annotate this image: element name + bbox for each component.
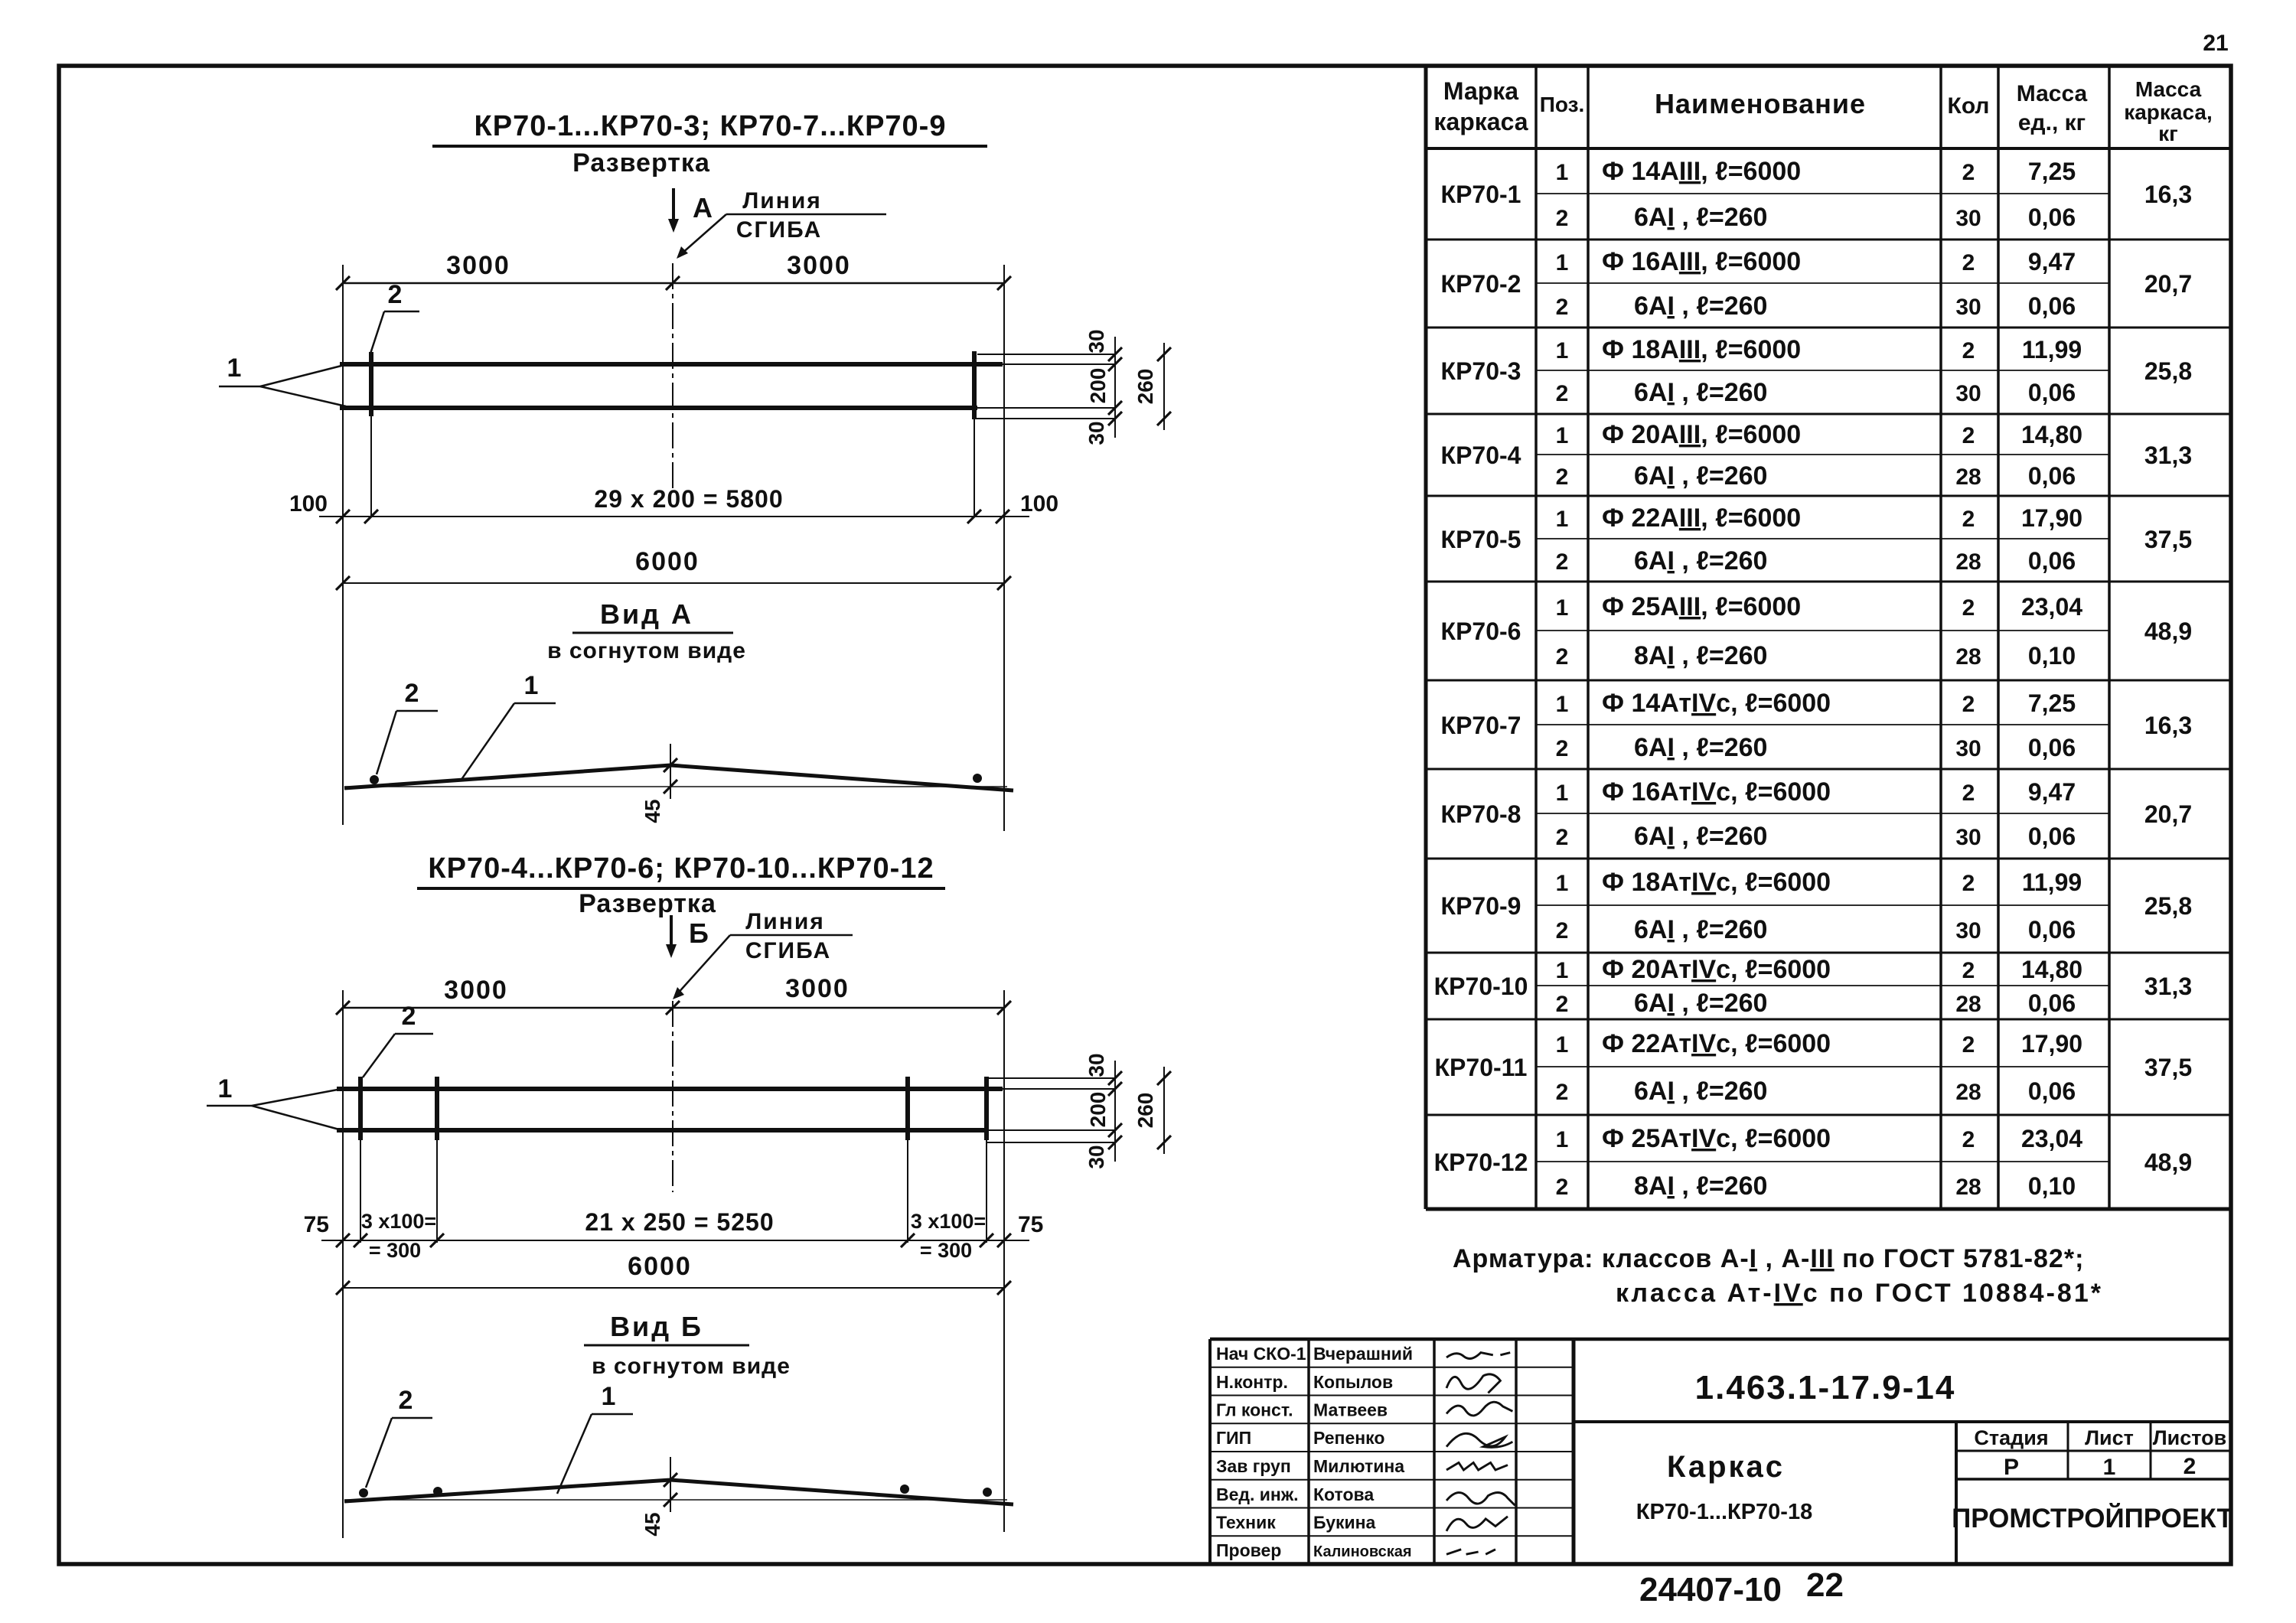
svg-text:0,06: 0,06 bbox=[2028, 823, 2076, 850]
signature squiggle 7 bbox=[1446, 1517, 1508, 1531]
svg-text:20,7: 20,7 bbox=[2144, 800, 2192, 828]
svg-text:Ф 14АIII, ℓ=6000: Ф 14АIII, ℓ=6000 bbox=[1602, 157, 1801, 186]
longitudinal rebar top d2 bbox=[337, 1087, 1003, 1091]
extension line right d1 bbox=[1003, 265, 1005, 831]
svg-text:1.463.1-17.9-14: 1.463.1-17.9-14 bbox=[1695, 1369, 1956, 1406]
svg-text:3 x100=: 3 x100= bbox=[361, 1210, 436, 1233]
label 1 leader VidB bbox=[557, 1382, 633, 1494]
svg-text:Ф 18АIII, ℓ=6000: Ф 18АIII, ℓ=6000 bbox=[1602, 335, 1801, 364]
signature squiggle 1 bbox=[1446, 1353, 1510, 1359]
dimension 75/3x100/21x250/3x100/75 d2 bbox=[304, 1208, 1044, 1262]
svg-text:СГИБА: СГИБА bbox=[736, 217, 822, 243]
svg-text:75: 75 bbox=[304, 1212, 329, 1237]
svg-text:30: 30 bbox=[1955, 918, 1981, 943]
section arrow B bbox=[666, 915, 709, 958]
svg-text:каркаса,: каркаса, bbox=[2124, 100, 2213, 124]
svg-text:Техник: Техник bbox=[1216, 1513, 1276, 1533]
svg-text:6АI , ℓ=260: 6АI , ℓ=260 bbox=[1634, 546, 1767, 575]
leader note Liniya sgiba 2 bbox=[673, 909, 853, 999]
svg-text:Ф 22АтIVс, ℓ=6000: Ф 22АтIVс, ℓ=6000 bbox=[1602, 1029, 1831, 1058]
svg-text:Развертка: Развертка bbox=[579, 889, 716, 918]
svg-text:30: 30 bbox=[1084, 421, 1108, 445]
svg-text:2: 2 bbox=[1556, 644, 1569, 670]
svg-text:3000: 3000 bbox=[785, 974, 850, 1003]
svg-text:Букина: Букина bbox=[1313, 1513, 1376, 1533]
svg-text:2: 2 bbox=[1556, 381, 1569, 406]
svg-text:2: 2 bbox=[399, 1386, 413, 1415]
svg-text:31,3: 31,3 bbox=[2144, 442, 2192, 469]
svg-text:Ф 25АIII, ℓ=6000: Ф 25АIII, ℓ=6000 bbox=[1602, 592, 1801, 621]
svg-text:1: 1 bbox=[227, 354, 242, 383]
svg-text:6АI , ℓ=260: 6АI , ℓ=260 bbox=[1634, 733, 1767, 762]
extension line left d2 bbox=[342, 990, 344, 1538]
svg-text:Каркас: Каркас bbox=[1667, 1450, 1785, 1484]
svg-text:КР70-11: КР70-11 bbox=[1435, 1054, 1528, 1081]
svg-text:Масса: Масса bbox=[2017, 81, 2088, 106]
document number box bbox=[1574, 1369, 2231, 1422]
svg-text:Р: Р bbox=[2004, 1455, 2019, 1480]
svg-text:14,80: 14,80 bbox=[2021, 421, 2082, 448]
dimension line 3000+3000 d1 bbox=[336, 251, 1011, 290]
svg-text:Ф 16АтIVс, ℓ=6000: Ф 16АтIVс, ℓ=6000 bbox=[1602, 777, 1831, 807]
table header labels bbox=[1433, 77, 2212, 145]
svg-text:Репенко: Репенко bbox=[1313, 1428, 1384, 1448]
svg-text:КР70-1: КР70-1 bbox=[1441, 181, 1521, 208]
svg-text:СГИБА: СГИБА bbox=[745, 938, 831, 963]
svg-text:0,06: 0,06 bbox=[2028, 547, 2076, 575]
svg-text:Наименование: Наименование bbox=[1655, 88, 1866, 119]
svg-text:Арматура: классов А-I , А-II: Арматура: классов А-I , А-III по ГОСТ 57… bbox=[1453, 1244, 2084, 1273]
svg-text:2: 2 bbox=[1962, 1127, 1975, 1152]
svg-text:6АI , ℓ=260: 6АI , ℓ=260 bbox=[1634, 203, 1767, 232]
cross bar 4 d2 bbox=[984, 1077, 989, 1243]
signature squiggle 8 bbox=[1446, 1550, 1495, 1554]
svg-text:Кол: Кол bbox=[1948, 93, 1990, 119]
table row КР70-4 bbox=[1441, 420, 2193, 490]
vertical dim 260 d2 bbox=[1133, 1067, 1171, 1154]
svg-text:0,06: 0,06 bbox=[2028, 989, 2076, 1017]
svg-text:48,9: 48,9 bbox=[2144, 1149, 2192, 1176]
svg-text:1: 1 bbox=[602, 1382, 616, 1411]
svg-text:260: 260 bbox=[1133, 369, 1157, 405]
svg-text:0,06: 0,06 bbox=[2028, 204, 2076, 231]
svg-text:31,3: 31,3 bbox=[2144, 973, 2192, 1000]
table row КР70-5 bbox=[1441, 504, 2193, 575]
svg-text:29 x 200 = 5800: 29 x 200 = 5800 bbox=[594, 485, 783, 513]
svg-text:1: 1 bbox=[1556, 781, 1569, 806]
weld dots VidB bbox=[359, 1484, 992, 1498]
extension line right d2 bbox=[1003, 990, 1005, 1532]
svg-text:2: 2 bbox=[402, 1002, 416, 1031]
label 1 leader VidA bbox=[461, 671, 556, 781]
dimension 29x200=5800 d1 bbox=[289, 485, 1058, 523]
subtitle Razvertka 1 bbox=[572, 148, 710, 178]
dimension line 3000+3000 d2 bbox=[336, 974, 1011, 1015]
svg-text:2: 2 bbox=[1962, 250, 1975, 275]
vertical dim 260 d1 bbox=[1133, 343, 1171, 430]
table row КР70-9 bbox=[1441, 868, 2193, 944]
svg-text:КР70-8: КР70-8 bbox=[1441, 800, 1521, 828]
svg-text:21: 21 bbox=[2203, 31, 2228, 56]
svg-text:Поз.: Поз. bbox=[1540, 93, 1585, 116]
stadia list listov header bbox=[1956, 1422, 2231, 1479]
svg-text:Провер: Провер bbox=[1216, 1540, 1281, 1560]
section arrow A bbox=[668, 188, 713, 233]
svg-text:16,3: 16,3 bbox=[2144, 181, 2192, 208]
svg-text:9,47: 9,47 bbox=[2028, 248, 2076, 275]
svg-text:28: 28 bbox=[1955, 464, 1981, 490]
svg-text:Развертка: Развертка bbox=[572, 148, 710, 178]
unfolded edge strip right d1 bbox=[974, 354, 1115, 419]
svg-text:9,47: 9,47 bbox=[2028, 778, 2076, 806]
svg-text:3000: 3000 bbox=[446, 251, 510, 280]
table row КР70-12 bbox=[1434, 1124, 2193, 1201]
svg-text:Матвеев: Матвеев bbox=[1313, 1400, 1388, 1420]
svg-text:0,10: 0,10 bbox=[2028, 1172, 2076, 1200]
table row КР70-7 bbox=[1441, 689, 2193, 762]
cross bar right d1 bbox=[972, 351, 977, 517]
page number 21 bbox=[2203, 31, 2228, 56]
svg-text:= 300: = 300 bbox=[920, 1239, 972, 1262]
svg-text:Калиновская: Калиновская bbox=[1313, 1543, 1412, 1560]
svg-text:0,06: 0,06 bbox=[2028, 379, 2076, 406]
table row КР70-10 bbox=[1434, 955, 2193, 1018]
svg-text:в согнутом виде: в согнутом виде bbox=[547, 638, 746, 663]
svg-text:260: 260 bbox=[1133, 1093, 1157, 1129]
view title Vid B bbox=[584, 1311, 749, 1345]
svg-text:Масса: Масса bbox=[2135, 77, 2202, 101]
svg-text:14,80: 14,80 bbox=[2021, 956, 2082, 983]
svg-text:2: 2 bbox=[1556, 464, 1569, 490]
svg-text:45: 45 bbox=[641, 1512, 664, 1536]
svg-text:16,3: 16,3 bbox=[2144, 712, 2192, 739]
svg-text:1: 1 bbox=[1556, 595, 1569, 621]
svg-text:= 300: = 300 bbox=[369, 1239, 421, 1262]
svg-text:Вид Б: Вид Б bbox=[610, 1311, 703, 1342]
dimension 6000 d1 bbox=[336, 547, 1011, 590]
table row КР70-6 bbox=[1441, 592, 2193, 670]
svg-text:Листов: Листов bbox=[2153, 1426, 2227, 1449]
svg-text:2: 2 bbox=[1556, 206, 1569, 231]
svg-text:3 x100=: 3 x100= bbox=[911, 1210, 986, 1233]
svg-text:1: 1 bbox=[1556, 423, 1569, 448]
bent bar VidA bbox=[344, 765, 1013, 790]
leader note Liniya sgiba 1 bbox=[677, 188, 886, 259]
svg-text:6АI , ℓ=260: 6АI , ℓ=260 bbox=[1634, 461, 1767, 490]
title block top line bbox=[1210, 1338, 2231, 1341]
svg-text:200: 200 bbox=[1086, 1092, 1110, 1128]
svg-text:3000: 3000 bbox=[787, 251, 851, 280]
svg-text:Ф 20АIII, ℓ=6000: Ф 20АIII, ℓ=6000 bbox=[1602, 420, 1801, 449]
svg-text:Стадия: Стадия bbox=[1974, 1426, 2048, 1449]
svg-text:37,5: 37,5 bbox=[2144, 526, 2192, 553]
signature squiggle 5 bbox=[1446, 1462, 1508, 1470]
svg-text:6АI , ℓ=260: 6АI , ℓ=260 bbox=[1634, 1077, 1767, 1106]
svg-text:2: 2 bbox=[1556, 1175, 1569, 1200]
svg-text:28: 28 bbox=[1955, 549, 1981, 575]
svg-text:2: 2 bbox=[1962, 958, 1975, 983]
svg-text:8АI , ℓ=260: 8АI , ℓ=260 bbox=[1634, 641, 1767, 670]
centerline fold 1 bbox=[672, 263, 673, 490]
svg-text:1: 1 bbox=[1556, 250, 1569, 275]
svg-text:30: 30 bbox=[1955, 206, 1981, 231]
svg-text:Н.контр.: Н.контр. bbox=[1216, 1372, 1288, 1392]
title KP70-4...KP70-6; KP70-10...KP70-12 bbox=[417, 852, 945, 888]
svg-text:2: 2 bbox=[1962, 781, 1975, 806]
svg-text:3000: 3000 bbox=[444, 976, 508, 1005]
svg-text:КР70-1...КР70-3; КР70-7...КР70: КР70-1...КР70-3; КР70-7...КР70-9 bbox=[475, 110, 947, 142]
svg-text:1: 1 bbox=[1556, 1032, 1569, 1058]
svg-text:КР70-5: КР70-5 bbox=[1441, 526, 1521, 553]
svg-text:Ф 16АIII, ℓ=6000: Ф 16АIII, ℓ=6000 bbox=[1602, 247, 1801, 276]
svg-text:2: 2 bbox=[1962, 423, 1975, 448]
svg-text:ГИП: ГИП bbox=[1216, 1428, 1251, 1448]
longitudinal rebar bottom d2 bbox=[337, 1128, 987, 1133]
svg-text:100: 100 bbox=[1020, 491, 1058, 517]
svg-text:1: 1 bbox=[1556, 338, 1569, 363]
svg-text:2: 2 bbox=[1556, 992, 1569, 1017]
label 2 leader d2 bbox=[363, 1002, 433, 1077]
karkas name box bbox=[1636, 1422, 1956, 1564]
label 1 leader d1 bbox=[219, 354, 346, 406]
svg-text:1: 1 bbox=[1556, 871, 1569, 896]
svg-text:КР70-4: КР70-4 bbox=[1441, 442, 1521, 469]
svg-text:КР70-10: КР70-10 bbox=[1434, 973, 1528, 1000]
title KP70-1...KP70-3; KP70-7...KP70-9 bbox=[432, 110, 987, 146]
svg-text:КР70-6: КР70-6 bbox=[1441, 618, 1521, 645]
handwritten archive number bbox=[1639, 1566, 1844, 1608]
svg-text:КР70-4...КР70-6; КР70-10...КР7: КР70-4...КР70-6; КР70-10...КР70-12 bbox=[428, 852, 934, 885]
svg-text:2: 2 bbox=[1962, 507, 1975, 532]
svg-text:2: 2 bbox=[1962, 1032, 1975, 1058]
cross bar 2 d2 bbox=[435, 1077, 439, 1243]
svg-text:0,06: 0,06 bbox=[2028, 292, 2076, 320]
svg-text:30: 30 bbox=[1955, 295, 1981, 320]
label 2 leader d1 bbox=[370, 280, 419, 354]
svg-text:8АI , ℓ=260: 8АI , ℓ=260 bbox=[1634, 1172, 1767, 1201]
svg-text:30: 30 bbox=[1955, 736, 1981, 761]
svg-text:28: 28 bbox=[1955, 1175, 1981, 1200]
svg-text:6АI , ℓ=260: 6АI , ℓ=260 bbox=[1634, 822, 1767, 851]
weld dots VidA bbox=[370, 774, 982, 784]
bent bar VidB bbox=[344, 1480, 1013, 1504]
svg-text:21 x 250 = 5250: 21 x 250 = 5250 bbox=[585, 1208, 774, 1236]
svg-text:КР70-7: КР70-7 bbox=[1441, 712, 1521, 739]
svg-text:КР70-12: КР70-12 bbox=[1434, 1149, 1528, 1176]
svg-text:7,25: 7,25 bbox=[2028, 689, 2076, 717]
svg-text:Вчерашний: Вчерашний bbox=[1313, 1344, 1413, 1364]
svg-text:Нач СКО-1: Нач СКО-1 bbox=[1216, 1344, 1306, 1364]
svg-text:Ф 25АтIVс, ℓ=6000: Ф 25АтIVс, ℓ=6000 bbox=[1602, 1124, 1831, 1153]
svg-text:0,06: 0,06 bbox=[2028, 916, 2076, 943]
svg-text:48,9: 48,9 bbox=[2144, 618, 2192, 645]
svg-text:75: 75 bbox=[1018, 1212, 1043, 1237]
svg-text:Б: Б bbox=[689, 917, 709, 949]
signature table rows bbox=[1216, 1344, 1413, 1560]
svg-text:0,06: 0,06 bbox=[2028, 734, 2076, 761]
svg-text:6000: 6000 bbox=[635, 547, 700, 576]
svg-text:30: 30 bbox=[1084, 1145, 1108, 1168]
svg-text:30: 30 bbox=[1084, 329, 1108, 353]
svg-text:КР70-2: КР70-2 bbox=[1441, 270, 1521, 298]
svg-text:1: 1 bbox=[1556, 692, 1569, 717]
svg-text:Зав груп: Зав груп bbox=[1216, 1456, 1291, 1476]
extension line left d1 bbox=[342, 265, 344, 825]
svg-text:24407-10: 24407-10 bbox=[1639, 1571, 1782, 1608]
svg-text:23,04: 23,04 bbox=[2021, 1125, 2082, 1152]
svg-text:Линия: Линия bbox=[745, 909, 825, 934]
table specification grid bbox=[1426, 66, 2231, 1209]
svg-text:2: 2 bbox=[405, 679, 419, 708]
svg-text:7,25: 7,25 bbox=[2028, 158, 2076, 185]
svg-text:11,99: 11,99 bbox=[2022, 336, 2082, 363]
table row КР70-8 bbox=[1441, 777, 2193, 851]
dim 45 VidB bbox=[641, 1457, 677, 1537]
vertical dim 30/200/30 d2 bbox=[1084, 1053, 1122, 1168]
svg-text:1: 1 bbox=[1556, 1127, 1569, 1152]
svg-text:2: 2 bbox=[1962, 692, 1975, 717]
svg-text:2: 2 bbox=[388, 280, 403, 309]
svg-text:А: А bbox=[693, 192, 713, 223]
svg-text:2: 2 bbox=[1556, 825, 1569, 850]
view title Vid A bbox=[572, 598, 733, 633]
signature table grid bbox=[1210, 1339, 1574, 1564]
cross bar 3 d2 bbox=[905, 1077, 910, 1243]
svg-text:23,04: 23,04 bbox=[2021, 593, 2082, 621]
svg-text:22: 22 bbox=[1806, 1566, 1844, 1604]
svg-text:25,8: 25,8 bbox=[2144, 357, 2192, 385]
longitudinal rebar bottom d1 bbox=[340, 406, 977, 410]
svg-text:1: 1 bbox=[1556, 160, 1569, 185]
svg-text:Ф 18АтIVс, ℓ=6000: Ф 18АтIVс, ℓ=6000 bbox=[1602, 868, 1831, 897]
svg-text:2: 2 bbox=[1962, 595, 1975, 621]
svg-text:6АI , ℓ=260: 6АI , ℓ=260 bbox=[1634, 915, 1767, 944]
svg-text:200: 200 bbox=[1086, 368, 1110, 404]
signature squiggle 4 bbox=[1446, 1433, 1512, 1447]
table row КР70-3 bbox=[1441, 335, 2193, 407]
svg-text:Вид А: Вид А bbox=[600, 598, 693, 630]
svg-text:2: 2 bbox=[1556, 1080, 1569, 1105]
svg-text:Ф 20АтIVс, ℓ=6000: Ф 20АтIVс, ℓ=6000 bbox=[1602, 955, 1831, 984]
svg-text:2: 2 bbox=[1556, 736, 1569, 761]
svg-text:2: 2 bbox=[1962, 871, 1975, 896]
table row КР70-1 bbox=[1441, 157, 2193, 232]
svg-text:ПРОМСТРОЙПРОЕКТ: ПРОМСТРОЙПРОЕКТ bbox=[1952, 1503, 2233, 1533]
svg-text:Линия: Линия bbox=[742, 188, 822, 213]
svg-text:28: 28 bbox=[1955, 1080, 1981, 1105]
svg-text:30: 30 bbox=[1955, 381, 1981, 406]
svg-text:11,99: 11,99 bbox=[2022, 869, 2082, 896]
longitudinal rebar top d1 bbox=[340, 362, 1003, 367]
stadia values row bbox=[1956, 1454, 2231, 1480]
note armatura line 1 bbox=[1453, 1244, 2084, 1273]
svg-text:КР70-1...КР70-18: КР70-1...КР70-18 bbox=[1636, 1500, 1812, 1524]
svg-text:1: 1 bbox=[2103, 1455, 2116, 1480]
svg-text:28: 28 bbox=[1955, 644, 1981, 670]
svg-text:2: 2 bbox=[1962, 338, 1975, 363]
dim 45 VidA bbox=[641, 744, 677, 823]
svg-text:45: 45 bbox=[641, 799, 664, 823]
svg-text:2: 2 bbox=[1556, 549, 1569, 575]
svg-text:6АI , ℓ=260: 6АI , ℓ=260 bbox=[1634, 378, 1767, 407]
svg-text:в согнутом виде: в согнутом виде bbox=[592, 1354, 791, 1379]
baseline VidA bbox=[344, 786, 1007, 787]
svg-text:Ф 22АIII, ℓ=6000: Ф 22АIII, ℓ=6000 bbox=[1602, 504, 1801, 533]
svg-text:30: 30 bbox=[1955, 825, 1981, 850]
svg-text:17,90: 17,90 bbox=[2021, 1030, 2082, 1058]
svg-text:каркаса: каркаса bbox=[1433, 108, 1528, 135]
table row КР70-2 bbox=[1441, 247, 2193, 321]
label 2 leader VidB bbox=[366, 1386, 432, 1488]
dimension 6000 d2 bbox=[336, 1252, 1011, 1295]
svg-text:28: 28 bbox=[1955, 992, 1981, 1017]
signature squiggle 2 bbox=[1446, 1374, 1500, 1393]
svg-text:Вед. инж.: Вед. инж. bbox=[1216, 1484, 1299, 1504]
view subtitle v sognutom vide B bbox=[592, 1354, 791, 1379]
svg-text:1: 1 bbox=[524, 671, 539, 700]
svg-text:Копылов: Копылов bbox=[1313, 1372, 1393, 1392]
svg-text:КР70-3: КР70-3 bbox=[1441, 357, 1521, 385]
svg-text:Лист: Лист bbox=[2085, 1426, 2134, 1449]
note armatura line 2 bbox=[1616, 1279, 2103, 1308]
unfolded edge strip right d2 bbox=[987, 1078, 1115, 1142]
signature squiggle 3 bbox=[1446, 1402, 1512, 1416]
cross bar 1 d2 bbox=[358, 1077, 363, 1243]
svg-text:Ф 14АтIVс, ℓ=6000: Ф 14АтIVс, ℓ=6000 bbox=[1602, 689, 1831, 718]
label 1 leader d2 bbox=[207, 1074, 339, 1129]
svg-text:2: 2 bbox=[1556, 295, 1569, 320]
svg-text:ед., кг: ед., кг bbox=[2018, 110, 2086, 135]
svg-text:6000: 6000 bbox=[628, 1252, 692, 1281]
svg-text:30: 30 bbox=[1084, 1053, 1108, 1077]
svg-text:6АI , ℓ=260: 6АI , ℓ=260 bbox=[1634, 292, 1767, 321]
svg-text:2: 2 bbox=[1556, 918, 1569, 943]
svg-text:КР70-9: КР70-9 bbox=[1441, 892, 1521, 920]
svg-text:2: 2 bbox=[2183, 1454, 2197, 1479]
svg-text:Гл конст.: Гл конст. bbox=[1216, 1400, 1293, 1420]
baseline VidB bbox=[344, 1499, 1007, 1501]
svg-text:20,7: 20,7 bbox=[2144, 270, 2192, 298]
promstroyproekt box bbox=[1952, 1503, 2233, 1533]
svg-text:17,90: 17,90 bbox=[2021, 504, 2082, 532]
svg-text:0,10: 0,10 bbox=[2028, 642, 2076, 670]
signature squiggle 6 bbox=[1446, 1492, 1515, 1505]
svg-text:2: 2 bbox=[1962, 160, 1975, 185]
svg-text:1: 1 bbox=[218, 1074, 233, 1103]
svg-text:1: 1 bbox=[1556, 958, 1569, 983]
centerline fold 2 bbox=[672, 1001, 673, 1192]
svg-text:6АI , ℓ=260: 6АI , ℓ=260 bbox=[1634, 989, 1767, 1018]
svg-text:Котова: Котова bbox=[1313, 1484, 1374, 1504]
svg-text:100: 100 bbox=[289, 491, 328, 517]
subtitle Razvertka 2 bbox=[579, 889, 716, 918]
svg-text:Милютина: Милютина bbox=[1313, 1456, 1404, 1476]
svg-text:0,06: 0,06 bbox=[2028, 1077, 2076, 1105]
cross bar left d1 bbox=[369, 352, 373, 517]
svg-text:кг: кг bbox=[2158, 122, 2178, 145]
svg-text:класса Ат-IVс по ГОСТ 10884-: класса Ат-IVс по ГОСТ 10884-81* bbox=[1616, 1279, 2103, 1308]
view subtitle v sognutom vide A bbox=[547, 638, 746, 663]
svg-text:25,8: 25,8 bbox=[2144, 892, 2192, 920]
svg-text:0,06: 0,06 bbox=[2028, 462, 2076, 490]
label 2 leader VidA bbox=[377, 679, 438, 774]
svg-text:1: 1 bbox=[1556, 507, 1569, 532]
vertical dim 30/200/30 d1 bbox=[1084, 329, 1122, 445]
table row КР70-11 bbox=[1435, 1029, 2193, 1106]
svg-text:37,5: 37,5 bbox=[2144, 1054, 2192, 1081]
svg-text:Марка: Марка bbox=[1443, 77, 1518, 105]
